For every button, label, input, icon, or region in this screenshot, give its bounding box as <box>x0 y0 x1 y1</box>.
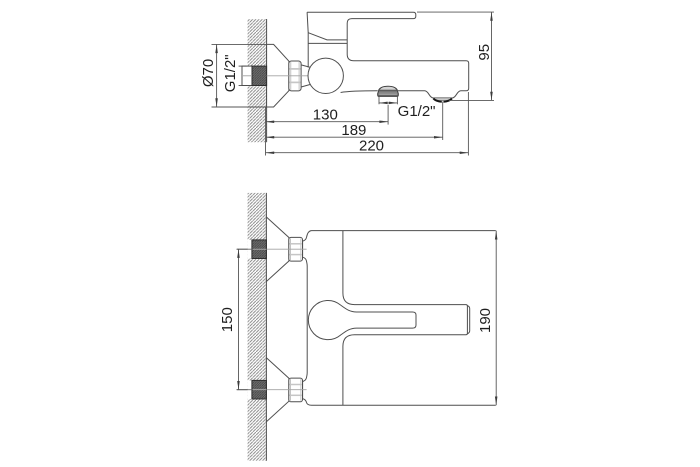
faucet body lower outline (spout, side view) <box>307 12 347 67</box>
connector ring between nut and valve <box>301 65 310 87</box>
aerator outlet (spout mouth) <box>433 98 452 102</box>
svg-text:G1/2": G1/2" <box>222 54 239 92</box>
thread length ticks <box>239 65 247 67</box>
wall face line <box>266 19 268 142</box>
lever handle and body top outline (side view) <box>307 12 469 98</box>
escutcheon cone (side view) <box>267 44 289 107</box>
dimension 220 <box>266 92 469 156</box>
dimension 190 <box>495 231 497 406</box>
svg-text:Ø70: Ø70 <box>200 59 217 87</box>
svg-text:130: 130 <box>313 106 338 123</box>
threaded nipple open end <box>242 66 252 85</box>
faucet body (front view) white fill <box>303 231 496 406</box>
bottom inlet: pipe in wall (cut) <box>252 380 267 399</box>
inlet centerlines <box>237 248 252 250</box>
lever underside slope and gap lines <box>308 33 347 40</box>
threaded nipple in wall (cut, crosshatched) <box>252 66 267 85</box>
shower outlet boss (dark, under spout) <box>378 86 399 96</box>
hex nut (side view) <box>289 61 301 91</box>
dimension 189 <box>266 102 443 140</box>
left edge of valve housing <box>307 12 308 67</box>
top inlet: hex nut <box>289 237 303 261</box>
lever keyhole (knob + slot, front view) <box>308 300 416 339</box>
lever bar end cap <box>467 306 469 334</box>
top inlet: escutcheon cone <box>266 217 289 282</box>
dimension 150 <box>237 249 248 390</box>
dimension 130 <box>266 105 389 156</box>
top inlet: pipe in wall (cut) <box>252 240 267 259</box>
dimension Ø70 <box>212 44 267 107</box>
svg-text:95: 95 <box>476 44 493 61</box>
G1/2" bracket at shower outlet <box>379 97 397 105</box>
dimension 95 <box>417 12 494 100</box>
faucet body (front view) outline (right edge is the dimension line) <box>303 231 496 406</box>
bottom inlet: escutcheon cone <box>266 358 289 422</box>
svg-text:220: 220 <box>359 137 384 154</box>
wall (front view) hatched strip <box>248 193 267 461</box>
svg-text:150: 150 <box>219 307 236 332</box>
white gaps at pipe penetrations <box>248 240 267 259</box>
wall face line <box>265 193 267 461</box>
front face contour with lever bar <box>343 231 468 406</box>
centerline streaks over wall pipes <box>253 248 267 250</box>
svg-text:189: 189 <box>341 122 366 139</box>
svg-text:G1/2": G1/2" <box>398 103 436 120</box>
bottom inlet: hex nut <box>289 378 303 402</box>
centerline of inlet <box>243 75 252 77</box>
svg-text:190: 190 <box>477 308 494 333</box>
wall (side view) hatched strip <box>248 19 267 142</box>
valve cap circle (side view) <box>308 58 343 93</box>
